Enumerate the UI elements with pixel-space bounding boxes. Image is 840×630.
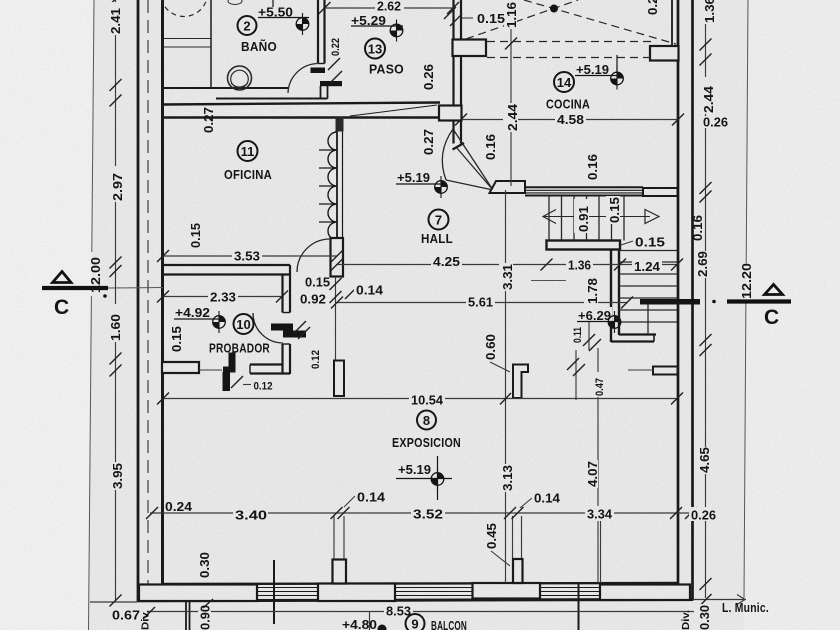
svg-text:0.15: 0.15 — [189, 223, 203, 248]
svg-text:0.30: 0.30 — [198, 552, 212, 578]
svg-text:0.15: 0.15 — [635, 236, 665, 250]
svg-text:0.27: 0.27 — [202, 107, 216, 133]
svg-text:3.13: 3.13 — [501, 465, 515, 491]
svg-text:L. Munic.: L. Munic. — [722, 600, 769, 615]
svg-text:0.16: 0.16 — [484, 134, 498, 160]
svg-text:11: 11 — [241, 144, 255, 159]
svg-text:0.15: 0.15 — [305, 276, 330, 290]
svg-text:3.53: 3.53 — [234, 250, 260, 264]
svg-text:0.16: 0.16 — [586, 154, 600, 180]
svg-text:0.15: 0.15 — [477, 12, 505, 26]
svg-text:12.00: 12.00 — [89, 257, 103, 293]
svg-text:0.15: 0.15 — [608, 197, 622, 223]
svg-text:7: 7 — [435, 213, 442, 228]
svg-text:0.22: 0.22 — [330, 38, 342, 56]
svg-text:0.90: 0.90 — [199, 605, 213, 630]
svg-text:0.24: 0.24 — [165, 500, 192, 514]
svg-text:1.78: 1.78 — [586, 278, 600, 304]
svg-text:4.25: 4.25 — [433, 255, 460, 269]
svg-text:0.12: 0.12 — [254, 381, 273, 393]
svg-text:8: 8 — [423, 413, 430, 428]
svg-text:2.44: 2.44 — [506, 104, 520, 131]
svg-text:8.53: 8.53 — [386, 605, 411, 619]
svg-text:0.14: 0.14 — [357, 491, 385, 505]
svg-text:2.62: 2.62 — [377, 0, 401, 14]
svg-text:+5.19: +5.19 — [397, 171, 430, 185]
svg-text:+5.19: +5.19 — [398, 463, 431, 477]
svg-text:3.95: 3.95 — [111, 463, 125, 489]
svg-text:14: 14 — [557, 75, 572, 90]
svg-text:+5.50: +5.50 — [258, 6, 293, 20]
svg-text:+5.19: +5.19 — [576, 63, 609, 77]
svg-text:10.54: 10.54 — [411, 394, 443, 408]
svg-text:12.20: 12.20 — [740, 263, 754, 299]
svg-text:0.45: 0.45 — [485, 523, 499, 549]
svg-text:4.65: 4.65 — [698, 447, 712, 473]
svg-text:2.33: 2.33 — [210, 291, 236, 305]
svg-text:0.91: 0.91 — [577, 206, 591, 232]
svg-text:0.67: 0.67 — [112, 609, 140, 623]
svg-text:0.92: 0.92 — [300, 293, 326, 307]
svg-text:0.47: 0.47 — [594, 378, 606, 396]
svg-text:COCINA: COCINA — [546, 97, 590, 112]
svg-text:OFICINA: OFICINA — [224, 167, 272, 182]
svg-text:3.52: 3.52 — [413, 508, 443, 522]
svg-text:+4.80: +4.80 — [342, 618, 377, 630]
svg-text:2.41: 2.41 — [109, 8, 123, 34]
svg-text:0.26: 0.26 — [703, 116, 728, 130]
svg-text:0.11: 0.11 — [572, 327, 584, 343]
svg-text:BAÑO: BAÑO — [241, 39, 277, 54]
svg-text:3.34: 3.34 — [587, 508, 612, 522]
svg-text:+5.29: +5.29 — [351, 14, 386, 28]
svg-text:0.26: 0.26 — [646, 0, 660, 15]
svg-text:0.14: 0.14 — [534, 492, 560, 506]
svg-text:1.24: 1.24 — [634, 260, 660, 274]
svg-text:+4.92: +4.92 — [175, 306, 210, 320]
svg-text:1.16: 1.16 — [505, 2, 519, 28]
svg-text:EXPOSICION: EXPOSICION — [392, 435, 461, 450]
svg-text:C: C — [54, 296, 69, 319]
svg-text:Div.: Div. — [680, 610, 692, 630]
svg-text:5.61: 5.61 — [468, 296, 493, 310]
svg-text:0.26: 0.26 — [422, 64, 436, 90]
svg-text:2.69: 2.69 — [696, 251, 710, 277]
svg-text:1.36: 1.36 — [703, 0, 717, 23]
svg-text:2.97: 2.97 — [111, 173, 125, 201]
svg-text:BALCON: BALCON — [431, 618, 467, 630]
svg-text:0.60: 0.60 — [484, 334, 498, 360]
svg-text:0.12: 0.12 — [310, 350, 322, 369]
svg-text:Div.: Div. — [140, 610, 152, 630]
svg-text:0.15: 0.15 — [170, 326, 184, 352]
svg-text:HALL: HALL — [421, 231, 453, 246]
svg-text:13: 13 — [368, 42, 382, 57]
svg-text:C: C — [764, 306, 779, 329]
svg-text:1.36: 1.36 — [568, 259, 591, 273]
svg-text:2.44: 2.44 — [702, 86, 716, 113]
svg-text:10: 10 — [236, 317, 250, 332]
svg-text:9: 9 — [411, 617, 418, 630]
svg-text:0.26: 0.26 — [691, 509, 716, 523]
svg-text:4.58: 4.58 — [557, 113, 584, 127]
svg-text:0.14: 0.14 — [356, 284, 383, 298]
svg-text:0.27: 0.27 — [422, 129, 436, 155]
svg-text:+6.29: +6.29 — [578, 309, 611, 323]
svg-text:PASO: PASO — [369, 62, 404, 77]
svg-text:2: 2 — [243, 19, 250, 34]
svg-text:3.40: 3.40 — [235, 509, 267, 523]
svg-text:3.31: 3.31 — [501, 264, 515, 290]
svg-text:PROBADOR: PROBADOR — [209, 341, 270, 356]
svg-text:4.07: 4.07 — [586, 461, 600, 487]
svg-text:0.30: 0.30 — [698, 605, 712, 630]
svg-text:0.16: 0.16 — [691, 215, 705, 241]
svg-text:1.60: 1.60 — [109, 314, 123, 341]
